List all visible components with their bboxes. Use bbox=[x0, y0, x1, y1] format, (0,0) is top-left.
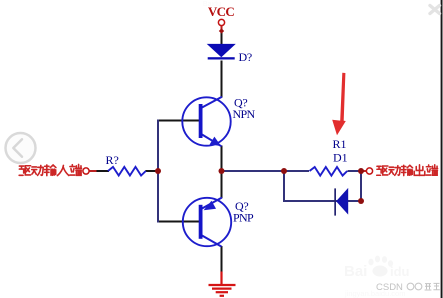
svg-text:R?: R? bbox=[106, 153, 119, 167]
svg-text:PNP: PNP bbox=[233, 211, 254, 225]
svg-text:Bai: Bai bbox=[344, 263, 367, 280]
svg-text:D1: D1 bbox=[333, 151, 348, 165]
svg-text:D?: D? bbox=[239, 50, 252, 64]
svg-text:idu: idu bbox=[390, 264, 410, 279]
svg-text:R1: R1 bbox=[333, 137, 347, 151]
svg-text:VCC: VCC bbox=[208, 4, 235, 19]
svg-text:CSDN: CSDN bbox=[376, 282, 403, 293]
svg-text:NPN: NPN bbox=[233, 107, 256, 121]
